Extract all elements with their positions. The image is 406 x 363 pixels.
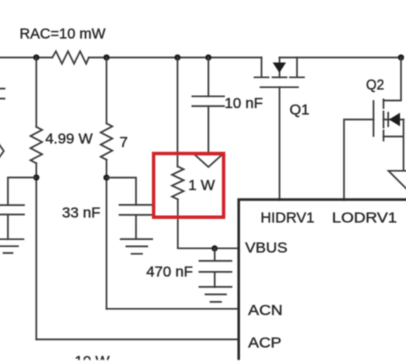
- transistor Q2 gate bar: [373, 101, 375, 136]
- svg-text:33 nF: 33 nF: [62, 205, 100, 222]
- svg-text:ACN: ACN: [248, 302, 283, 319]
- ground 33nF: [121, 239, 153, 254]
- svg-text:4.99 W: 4.99 W: [45, 131, 93, 148]
- svg-text:1 W: 1 W: [188, 177, 216, 194]
- svg-text:RAC=10 mW: RAC=10 mW: [20, 26, 107, 43]
- wire top rail right: [280, 57, 402, 59]
- wire branch right to 33nF: [107, 178, 137, 205]
- transistor Q1 middle contact: [273, 76, 287, 78]
- node dot D (x208.4): [205, 54, 211, 60]
- wire top rail middle: [89, 57, 262, 59]
- wire column x106 lower: [106, 160, 108, 309]
- wire column x36 upper: [35, 58, 37, 127]
- wire column x177 upper: [177, 58, 179, 167]
- wire ACP: [36, 338, 239, 340]
- transistor Q2 drain lead: [384, 58, 402, 101]
- wire column x106 upper: [106, 58, 108, 124]
- svg-text:VBUS: VBUS: [245, 240, 287, 257]
- node dot F: [103, 175, 109, 181]
- svg-text:Q2: Q2: [366, 77, 384, 94]
- wire top rail left: [0, 57, 52, 59]
- wire 1W to VBUS: [178, 199, 239, 248]
- transistor Q1 body diode triangle: [273, 63, 286, 73]
- node dot G (470nF tap): [212, 245, 218, 251]
- transistor Q2 body diode triangle: [389, 113, 400, 127]
- transistor Q2 gate wire: [344, 120, 374, 201]
- transistor Q2 channel: [383, 100, 385, 141]
- node dot H (top right): [398, 54, 404, 60]
- svg-text:Q1: Q1: [290, 102, 310, 119]
- resistor R7: [101, 123, 113, 159]
- capacitor C 10nF: [192, 96, 224, 154]
- transistor Q2 source lead: [384, 120, 404, 171]
- capacitor left edge column: [0, 205, 24, 239]
- resistor R 4.99 W: [31, 127, 43, 163]
- bottom clip strip: [0, 360, 406, 363]
- ground 470nF: [199, 287, 231, 302]
- transistor Q1 right contact: [290, 58, 304, 78]
- resistor RAC (10 mW): [52, 51, 89, 63]
- transistor Q2 body line: [384, 119, 404, 121]
- capacitor C 470nF: [199, 248, 231, 287]
- svg-text:LODRV1: LODRV1: [332, 210, 397, 227]
- transistor Q1 left contact: [255, 58, 269, 78]
- capacitor fragment at left edge (plates): [0, 89, 5, 99]
- svg-text:7: 7: [120, 134, 128, 151]
- IC box U1: [239, 200, 406, 363]
- transistor Q2 body diode cathode bar: [387, 113, 389, 127]
- wire branch left to edge capacitor: [8, 178, 36, 206]
- resistor fragment at left edge: [0, 144, 4, 159]
- svg-text:10 nF: 10 nF: [225, 95, 263, 112]
- AC return open triangle: [195, 155, 223, 168]
- transistor Q1 gate plate: [261, 86, 299, 88]
- node dot C (x177.5): [174, 54, 180, 60]
- wire column x208 upper: [207, 58, 209, 97]
- switch node open triangle (cut at edge): [389, 171, 406, 189]
- transistor Q1 body diode lead: [279, 58, 281, 78]
- resistor R 1W: [172, 167, 184, 200]
- svg-text:ACP: ACP: [248, 335, 281, 352]
- capacitor C 33nF: [120, 205, 152, 239]
- svg-text:470 nF: 470 nF: [146, 264, 193, 281]
- wire ACN: [107, 308, 240, 310]
- highlight red rectangle: [154, 154, 224, 218]
- node dot A (x36): [33, 54, 39, 60]
- ground left column: [0, 239, 24, 253]
- svg-text:HIDRV1: HIDRV1: [261, 210, 315, 227]
- wire Q1 gate to HIDRV1: [279, 87, 281, 200]
- wire column x36 lower: [35, 163, 37, 339]
- node dot E: [33, 174, 39, 180]
- node dot B (x106.5): [103, 54, 109, 60]
